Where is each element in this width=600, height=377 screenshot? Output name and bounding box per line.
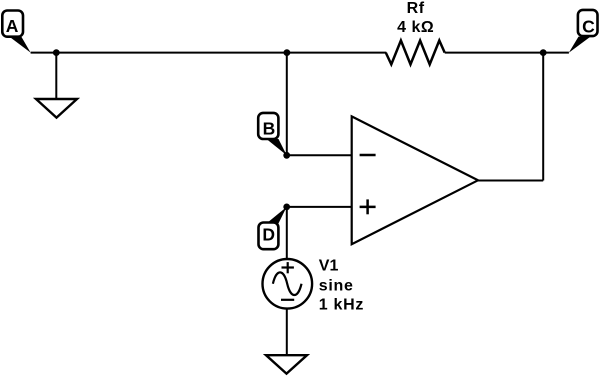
wire V1 to ground: [286, 309, 288, 356]
svg-text:B: B: [263, 119, 276, 139]
junction dot node D: [283, 204, 290, 211]
node A label: [2, 11, 30, 53]
wire op-amp output: [478, 180, 543, 182]
svg-text:A: A: [6, 16, 19, 36]
wire A to resistor: [31, 52, 387, 54]
voltage source V1: [263, 259, 313, 309]
wire node B to inverting input: [287, 154, 352, 156]
junction dot node A: [53, 49, 60, 56]
junction dot node C: [540, 49, 547, 56]
node B label: [258, 113, 287, 155]
svg-text:V1: V1: [319, 258, 339, 275]
op-amp U1: [352, 116, 478, 244]
wire A junction to ground: [55, 53, 57, 99]
wire top junction down to node B: [286, 53, 288, 156]
svg-text:D: D: [262, 224, 275, 244]
svg-text:4 kΩ: 4 kΩ: [397, 19, 434, 36]
node C label: [569, 10, 598, 53]
svg-text:Rf: Rf: [407, 0, 425, 17]
ground (bottom): [266, 355, 307, 373]
node D label: [259, 207, 287, 249]
ground (top-left): [36, 99, 77, 118]
wire node D down to V1: [286, 207, 288, 259]
junction dot top tee: [284, 49, 291, 56]
svg-text:sine: sine: [319, 278, 354, 295]
svg-text:C: C: [582, 17, 595, 37]
wire node D to non-inverting input: [287, 206, 352, 208]
resistor Rf: [386, 41, 445, 65]
junction dot node B: [283, 152, 290, 159]
wire output up to node C: [542, 53, 544, 181]
svg-text:1 kHz: 1 kHz: [319, 297, 364, 314]
wire resistor to node C: [445, 52, 569, 54]
